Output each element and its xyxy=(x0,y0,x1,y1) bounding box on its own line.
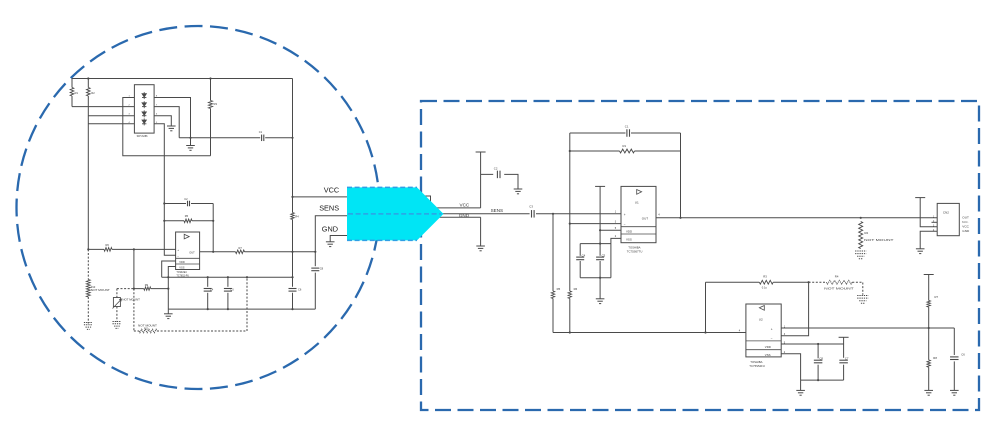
node output / R2 not mount xyxy=(860,217,862,219)
ground below pin8 wire xyxy=(186,145,195,147)
svg-text:SENS: SENS xyxy=(491,208,504,213)
svg-text:C5: C5 xyxy=(230,287,234,291)
wire feedback C2 branch xyxy=(164,203,213,205)
capacitor C8 right xyxy=(817,344,819,358)
svg-text:C6: C6 xyxy=(961,352,965,356)
wire non-inverting input with R6 xyxy=(88,248,175,250)
svg-text:VCC: VCC xyxy=(324,186,339,195)
op-amp U1 xyxy=(621,186,656,242)
svg-text:OUT: OUT xyxy=(642,217,649,221)
svg-text:−: − xyxy=(177,254,179,258)
svg-text:C8: C8 xyxy=(320,267,324,271)
svg-text:NOT MOUNT: NOT MOUNT xyxy=(864,238,894,242)
cyan block arrow xyxy=(347,187,444,240)
capacitor C6 xyxy=(292,277,294,287)
wire R1 to pin2 xyxy=(72,106,134,108)
wire C2 branch xyxy=(481,174,518,189)
supply bar above VCC riser xyxy=(476,151,486,153)
wire R3 left drop xyxy=(705,282,707,332)
dashed ground below trimmer xyxy=(113,321,122,323)
wire SENS stub to connector xyxy=(315,216,347,252)
svg-text:R3: R3 xyxy=(763,274,767,278)
node feedback right / output xyxy=(679,217,681,219)
wire CN1 GND out xyxy=(431,216,481,218)
capacitor C4 right xyxy=(579,244,581,256)
svg-text:SFH-6286: SFH-6286 xyxy=(137,135,149,138)
resistor R3 right xyxy=(759,280,773,284)
wire supply riser U1 xyxy=(599,186,601,298)
dashed resistor R10 not mounted xyxy=(87,249,89,279)
trimmer RV1 not mounted xyxy=(116,289,118,298)
svg-text:C7: C7 xyxy=(845,356,849,360)
ground below pin6 xyxy=(167,125,176,127)
connector CN1 behind arrow xyxy=(425,196,431,226)
capacitor C5 right xyxy=(596,256,604,258)
ground below VSS drop xyxy=(167,309,169,314)
svg-text:TC75S67TU: TC75S67TU xyxy=(627,249,643,253)
wire inverting input of U1 xyxy=(570,223,621,225)
svg-text:VDD: VDD xyxy=(765,345,771,349)
wire pin5 vertical to op-amp inverting input xyxy=(154,124,176,256)
wire pin7 to C1 wire xyxy=(154,107,179,138)
node feedback left / inverting wire xyxy=(569,223,571,225)
diode D3 inside IC1 xyxy=(142,112,146,115)
svg-text:R2: R2 xyxy=(91,91,95,95)
wire U2 ground link xyxy=(801,379,844,381)
capacitor C5 xyxy=(227,277,229,287)
resistor R9 xyxy=(144,287,151,290)
node lower rail / R3 drop xyxy=(704,331,706,333)
wire C4 C5 bottom link xyxy=(580,277,611,279)
svg-text:R6: R6 xyxy=(106,243,110,247)
wire VCC stub to connector xyxy=(293,196,348,198)
resistor R5 right xyxy=(552,214,554,291)
ground below supply riser xyxy=(596,298,605,300)
wire feedback R5 branch xyxy=(164,220,213,222)
node upper bus / C5 xyxy=(227,276,229,278)
svg-text:−: − xyxy=(771,336,773,340)
svg-text:R6: R6 xyxy=(574,287,578,291)
node C5 bottom xyxy=(599,277,601,279)
dashed circle boundary of input stage xyxy=(17,26,380,389)
node VSS drop / upper bus xyxy=(167,276,169,278)
wire CN1 SENS out xyxy=(431,213,530,215)
wire CN1 VCC out xyxy=(431,207,481,209)
pin 2 stub CN2 xyxy=(932,221,938,223)
dashed resistor R4 not mounted xyxy=(809,281,827,283)
node right rail / upper bus xyxy=(291,276,293,278)
node pin5 vertical / C2 feedback xyxy=(163,202,165,204)
svg-text:C5: C5 xyxy=(602,253,606,257)
diode D2 inside IC1 xyxy=(142,103,146,106)
dashed azure top edge of arrow xyxy=(347,186,417,188)
pin 4 stub CN2 with ground xyxy=(920,231,937,249)
wire R1 feedback xyxy=(570,150,681,152)
wire top rail xyxy=(72,78,293,80)
node R6 wire start xyxy=(87,248,89,250)
dashed rectangle boundary of output stage xyxy=(421,101,979,410)
op-amp IC2 xyxy=(176,232,200,270)
ground below C2 xyxy=(514,188,523,190)
svg-text:C3: C3 xyxy=(529,205,533,209)
wire lower supply bus xyxy=(168,308,315,310)
node lower bus / C4 xyxy=(207,308,209,310)
svg-text:N.C.: N.C. xyxy=(962,220,968,224)
supply bar above U2 riser xyxy=(839,336,849,338)
svg-text:C4: C4 xyxy=(582,253,586,257)
wire GND stub to connector xyxy=(330,236,347,242)
op-amp U2 xyxy=(746,304,781,357)
svg-text:C4: C4 xyxy=(210,287,214,291)
wire U1 output to CN2 xyxy=(656,217,937,219)
svg-text:R4: R4 xyxy=(295,215,299,219)
svg-text:R8: R8 xyxy=(933,356,937,360)
svg-text:+: + xyxy=(624,213,626,217)
node output / C8 branch xyxy=(314,251,316,253)
node pin8 wire / C1 wire xyxy=(189,137,191,139)
wire C4 C5 right side xyxy=(610,244,612,278)
node lower bus / C6 xyxy=(291,308,293,310)
svg-text:OUT: OUT xyxy=(189,251,195,255)
capacitor C8 xyxy=(314,252,316,266)
capacitor C6 right xyxy=(953,328,955,355)
node feedback / output xyxy=(212,251,214,253)
svg-text:TC75S54FU: TC75S54FU xyxy=(749,364,765,368)
resistor R6 xyxy=(104,248,112,252)
svg-text:+: + xyxy=(771,328,773,332)
wire R9 branch xyxy=(134,288,168,290)
node pin5 vertical / R5 feedback xyxy=(163,220,165,222)
svg-text:U1: U1 xyxy=(635,200,639,204)
wire VDD of IC2 to upper bus xyxy=(162,261,176,277)
wire VDD of U2 xyxy=(781,343,843,345)
wire VSS of IC2 down to lower bus xyxy=(168,267,175,310)
wire R3 branch xyxy=(706,281,809,283)
svg-text:SENS: SENS xyxy=(319,203,339,212)
node VDD / supply riser xyxy=(599,229,601,231)
svg-text:NOT MOUNT: NOT MOUNT xyxy=(824,287,854,291)
svg-text:GND: GND xyxy=(459,213,470,218)
wire lower rail to U2 xyxy=(553,332,746,334)
svg-text:OUT: OUT xyxy=(962,215,969,219)
pin 3 stub CN2 with supply xyxy=(920,198,937,227)
svg-text:CN2: CN2 xyxy=(943,210,949,214)
svg-text:NOT MOUNT: NOT MOUNT xyxy=(91,288,110,292)
ground below U2 xyxy=(800,380,802,390)
node VSS drop / R9 wire xyxy=(167,288,169,290)
node VDD U2 / C8 xyxy=(817,343,819,345)
svg-text:R5: R5 xyxy=(185,214,189,218)
resistor R11 not mounted xyxy=(139,329,157,333)
svg-text:GND: GND xyxy=(322,225,338,234)
wire U2 inverting feedback riser xyxy=(781,282,808,336)
svg-text:R7: R7 xyxy=(239,246,243,250)
svg-text:R3: R3 xyxy=(214,102,218,106)
wire C4 C5 top link xyxy=(580,243,611,245)
node feedback left / R1 wire xyxy=(569,150,571,152)
wire pin1 loop to R3 bottom xyxy=(123,98,211,156)
node right rail / output wire xyxy=(291,251,293,253)
svg-text:NOT MOUNT: NOT MOUNT xyxy=(122,298,140,302)
svg-text:R1: R1 xyxy=(75,91,79,95)
dashed wire R11 up to upper bus xyxy=(246,277,248,331)
capacitor C1 xyxy=(261,135,263,142)
ground below R8 xyxy=(924,389,933,391)
dashed azure bottom edge of arrow xyxy=(347,239,417,241)
capacitor C4 xyxy=(207,277,209,287)
dashed ground below R4 xyxy=(857,295,868,297)
wire feedback left vertical xyxy=(569,133,571,291)
diode D4 inside IC1 xyxy=(142,120,146,123)
dashed wire R11 branch xyxy=(134,330,247,332)
wire mid vertical solid part xyxy=(133,249,135,288)
diode D1 inside IC1 xyxy=(142,94,146,97)
supply riser U2 xyxy=(843,337,845,358)
svg-text:R1: R1 xyxy=(623,144,627,148)
wire C1 horizontal xyxy=(179,137,292,139)
wire C1 feedback top xyxy=(570,132,681,134)
wire R2 vertical down xyxy=(87,96,89,249)
wire pin3 stub xyxy=(88,115,134,117)
wire feedback right vertical xyxy=(212,204,214,252)
resistor R5 xyxy=(184,219,192,223)
node lower rail / R6 xyxy=(569,331,571,333)
svg-text:R2: R2 xyxy=(864,231,868,235)
optocoupler IC1 package xyxy=(134,85,154,133)
svg-text:R11: R11 xyxy=(144,327,149,330)
wire VSS of U1 xyxy=(611,238,621,243)
node C3 / R5 divider xyxy=(552,213,554,215)
wire pin4 stub xyxy=(88,123,134,125)
ground below GND drop xyxy=(476,245,485,247)
svg-text:VSS: VSS xyxy=(626,237,632,241)
wire pin6 to ground xyxy=(154,116,171,126)
svg-text:C1: C1 xyxy=(259,130,263,134)
node top rail / R3 xyxy=(209,77,211,79)
svg-text:VCC: VCC xyxy=(460,202,470,207)
svg-text:C2: C2 xyxy=(494,167,498,171)
svg-text:+: + xyxy=(177,248,179,252)
capacitor C1 right xyxy=(626,129,628,137)
svg-text:R9: R9 xyxy=(145,283,149,287)
node VCC branch xyxy=(291,196,293,198)
svg-text:C6: C6 xyxy=(298,287,302,291)
node lower bus / C5 xyxy=(227,308,229,310)
wire U2 output xyxy=(781,327,954,329)
node R3 / R4 junction xyxy=(808,281,810,283)
dashed resistor R2 not mounted xyxy=(859,222,863,249)
dashed wire trimmer branch xyxy=(117,288,134,290)
dashed ground below R10 xyxy=(84,322,93,324)
resistor R6 right xyxy=(568,291,571,299)
svg-text:U2: U2 xyxy=(759,318,763,322)
node upper bus / C4 xyxy=(207,276,209,278)
resistor R7 right xyxy=(924,274,934,276)
node upper bus / dashed R11 xyxy=(246,276,248,278)
node mid vertical / R9 wire xyxy=(133,288,135,290)
wire mid vertical dashed part xyxy=(133,289,135,331)
node top rail / R2 xyxy=(87,77,89,79)
resistor R1 right xyxy=(620,149,635,153)
svg-text:VDD: VDD xyxy=(179,260,185,264)
resistor R2 xyxy=(87,79,89,88)
node ground link / C8 xyxy=(817,379,819,381)
wire VDD of U1 xyxy=(600,229,621,231)
wire right vertical rail xyxy=(292,79,294,278)
svg-text:R5: R5 xyxy=(557,287,561,291)
supply bar above U1 xyxy=(595,185,605,187)
svg-text:C2: C2 xyxy=(184,197,188,201)
ground below C6 xyxy=(950,389,959,391)
capacitor C7 xyxy=(839,359,848,361)
node C5 top xyxy=(599,243,601,245)
resistor R3 xyxy=(210,79,212,101)
node feedback / R5 xyxy=(212,220,214,222)
capacitor C2 right xyxy=(496,171,498,179)
wire GND drop xyxy=(480,217,482,246)
ground below CN2 xyxy=(916,248,925,250)
svg-text:VCC: VCC xyxy=(962,224,969,228)
svg-text:C8: C8 xyxy=(819,356,823,360)
node right rail / C1 wire xyxy=(291,137,293,139)
capacitor C2 xyxy=(187,201,189,207)
wire VSS of U2 xyxy=(781,354,800,380)
svg-text:VSS: VSS xyxy=(765,353,771,357)
svg-text:VDD: VDD xyxy=(626,230,632,234)
wire upper supply bus xyxy=(162,276,293,278)
wire op-amp output with R7 xyxy=(200,251,316,253)
svg-text:−: − xyxy=(624,223,626,227)
resistor R7 xyxy=(236,250,245,254)
svg-text:R7: R7 xyxy=(935,295,939,299)
wire SENS to U1 non-inverting input xyxy=(536,213,621,215)
svg-text:VSS: VSS xyxy=(179,266,184,270)
svg-text:GND: GND xyxy=(962,229,970,233)
connector CN2 xyxy=(937,203,959,235)
svg-text:C1: C1 xyxy=(625,125,629,129)
capacitor C3 xyxy=(531,210,533,218)
dashed ground below R2 xyxy=(855,250,866,252)
wire VCC riser xyxy=(480,152,482,208)
wire feedback right vertical xyxy=(680,133,682,218)
wire pin8 to ground xyxy=(154,98,190,146)
node R6 wire / mid vertical xyxy=(133,248,135,250)
resistor R8 right xyxy=(927,360,930,367)
svg-text:R4: R4 xyxy=(835,274,839,278)
node U2 output / R7 R8 xyxy=(928,327,930,329)
resistor R4 xyxy=(291,213,294,220)
resistor R1 xyxy=(71,79,73,88)
ground below GND stub xyxy=(326,241,335,243)
dashed azure midline of arrow xyxy=(348,213,442,215)
svg-text:0.1u: 0.1u xyxy=(762,286,768,290)
